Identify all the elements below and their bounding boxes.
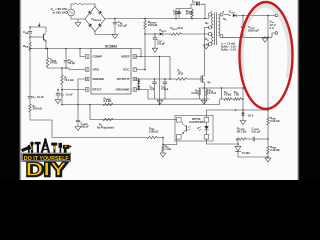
wire ISENSE down — [78, 79, 85, 105]
junction Rstart rail — [144, 18, 146, 20]
junction divider return — [267, 37, 269, 39]
wire bridge bottom — [95, 32, 115, 35]
junction VREF riser — [140, 56, 142, 58]
transformer pin boxes — [209, 13, 212, 16]
wire comp left — [236, 139, 238, 144]
resistor R11 bias — [162, 146, 165, 152]
svg-text:0.01 µF: 0.01 µF — [252, 129, 261, 133]
diode DOUT — [233, 14, 236, 17]
svg-text:VREF: VREF — [121, 54, 129, 58]
junction Cvcc — [154, 33, 156, 35]
wire secondary top — [224, 15, 231, 16]
junction bootstrap — [144, 33, 146, 35]
svg-text:100 kΩ: 100 kΩ — [148, 23, 158, 27]
svg-text:10 nF: 10 nF — [173, 13, 180, 16]
white schematic background — [0, 0, 320, 180]
svg-text:No Populated: No Populated — [97, 126, 114, 130]
junction ladder right top — [242, 87, 244, 89]
svg-text:120 µF: 120 µF — [157, 41, 166, 45]
capacitor C1 — [28, 31, 32, 33]
resistor — [103, 118, 113, 121]
wire VREF rail left — [30, 48, 91, 50]
wire opto anode riser — [206, 110, 208, 118]
ground Rbias — [160, 153, 166, 157]
wire RTCT column down — [61, 90, 63, 105]
wire AC bottom to bridge left — [71, 16, 85, 19]
wire Q2 collector — [45, 27, 47, 33]
op-amp U3 TL431 — [235, 146, 241, 151]
ground CT — [55, 100, 61, 104]
wire Cramp stub — [77, 105, 79, 120]
capacitor C6 — [152, 81, 156, 83]
phase dot primary — [211, 11, 212, 12]
resistor R12 LED feed 1 — [224, 98, 232, 101]
svg-text:100 pF: 100 pF — [81, 124, 90, 128]
ground aux — [203, 45, 209, 49]
wire Dz to ground — [242, 116, 244, 121]
svg-text:1 kΩ: 1 kΩ — [234, 93, 239, 96]
ground output — [262, 38, 268, 42]
wire C1 bottom — [29, 34, 31, 42]
wire Cout top leg — [242, 16, 244, 26]
junction right drop — [169, 78, 171, 80]
red circle annotation — [240, 2, 293, 109]
wire bottom return right — [157, 137, 163, 139]
junction clamp rail — [204, 18, 206, 20]
svg-text:COMP: COMP — [93, 54, 102, 58]
wire to minus terminal — [272, 33, 275, 37]
ground main — [201, 100, 207, 104]
resistor RFBU — [267, 117, 270, 125]
opto-coupler U2 box — [175, 116, 213, 142]
capacitor C2 — [64, 60, 68, 62]
wire left column — [29, 51, 31, 96]
wire to Dboot — [145, 33, 159, 35]
wire LED row — [207, 109, 269, 111]
wire clamp riser — [191, 4, 195, 8]
transformer T1 core — [214, 13, 216, 46]
svg-text:4.3 kΩ: 4.3 kΩ — [224, 93, 231, 96]
capacitor C3 CT — [56, 93, 60, 95]
wire ladder a — [220, 98, 225, 100]
resistor — [103, 103, 113, 106]
wire divider mid — [267, 125, 269, 146]
svg-text:1 µF: 1 µF — [150, 88, 155, 91]
junction C2 rail — [65, 48, 67, 50]
svg-text:10 Ω: 10 Ω — [178, 71, 184, 75]
junction line B — [89, 104, 91, 106]
ground zener — [240, 121, 246, 125]
DIY logo banner — [22, 153, 72, 162]
svg-text:56 pF: 56 pF — [68, 61, 75, 65]
wire Q2 emitter — [45, 41, 47, 49]
opto phototransistor — [186, 126, 188, 132]
wire Cin top — [114, 19, 116, 22]
wire CT stub — [57, 90, 59, 93]
resistor — [176, 78, 187, 81]
junction RTCT — [61, 89, 63, 91]
wire VREF row — [136, 56, 170, 58]
svg-text:TL431: TL431 — [242, 151, 250, 155]
svg-text:COUPLER: COUPLER — [189, 120, 205, 124]
junction FB mid — [267, 138, 269, 140]
wire drain riser — [203, 28, 205, 77]
node arrow — [38, 23, 40, 25]
wire GROUND row — [136, 90, 148, 100]
svg-text:RT/CT: RT/CT — [93, 87, 102, 91]
wire C2 bottom — [65, 63, 67, 68]
junction R3 — [61, 67, 63, 69]
junction COMP rail — [79, 48, 81, 50]
junction VREF drop — [159, 56, 161, 58]
wire TL431 anode — [238, 152, 268, 157]
pin 1 — [85, 55, 89, 59]
svg-text:10 kΩ: 10 kΩ — [191, 92, 198, 95]
capacitor CVCC — [153, 37, 157, 39]
wire Cramp bottom — [77, 122, 79, 126]
resistor RSNUB — [191, 10, 194, 18]
wire R2 top — [47, 49, 49, 58]
pin 2 — [85, 68, 89, 72]
wire LED anode — [206, 122, 208, 126]
DIY logo tools row — [21, 138, 72, 153]
junction bias top — [29, 26, 31, 28]
wire bottom return left — [52, 137, 147, 139]
wire ground stub — [77, 19, 79, 23]
capacitor COUT — [241, 25, 245, 27]
junction anode gnd — [267, 156, 269, 158]
pin 6 — [133, 77, 137, 81]
wire clamp to rail — [201, 4, 206, 18]
capacitor C7 — [163, 81, 167, 83]
junction LED row divider — [267, 109, 269, 111]
bridge rectifier DBRIDGE — [85, 7, 105, 32]
wire input DC rail — [105, 18, 209, 21]
svg-text:88.7 kΩ: 88.7 kΩ — [237, 129, 246, 133]
wire VREF riser — [140, 49, 142, 57]
wire Rboot to aux — [181, 33, 209, 35]
junction VCC — [144, 69, 146, 71]
capacitor C4 — [28, 96, 32, 98]
wire Rstart top — [144, 19, 146, 21]
wire Cd2 bottom — [164, 84, 166, 99]
diode DCLAMP — [196, 3, 199, 6]
wire ladder mid — [232, 98, 234, 100]
junction left column rail — [29, 48, 31, 50]
ground Cvcc — [152, 48, 158, 52]
junction CS — [204, 87, 206, 89]
wire VREF right drop — [169, 57, 171, 80]
junction R2 rail — [47, 48, 49, 50]
wire R9 top — [199, 88, 201, 90]
wire z1 top — [138, 79, 140, 80]
svg-text:1.0 nF: 1.0 nF — [65, 93, 73, 97]
LED arrows — [199, 127, 202, 131]
svg-text:60 kΩ: 60 kΩ — [186, 13, 193, 16]
resistor RCOMP zigzag — [236, 138, 246, 141]
svg-text:0.75 Ω: 0.75 Ω — [209, 92, 216, 95]
junction Cd1 — [154, 78, 156, 80]
svg-text:DIY: DIY — [26, 158, 68, 179]
resistor RFBB — [267, 146, 270, 154]
junction Rbias — [162, 144, 164, 146]
wire Cd1 top — [154, 79, 156, 82]
wire C2 top — [65, 49, 67, 60]
svg-text:GROUND: GROUND — [116, 87, 131, 91]
wire Dboot to Rboot — [164, 33, 171, 35]
wire ladder right column — [242, 88, 244, 112]
pin 5 — [133, 88, 137, 92]
zener D1 — [137, 80, 140, 83]
wire divider bottom — [267, 154, 269, 158]
svg-text:VCC: VCC — [123, 67, 130, 71]
junction snubber left — [175, 18, 177, 20]
wire gate — [187, 78, 201, 80]
capacitor CCOMP — [252, 137, 254, 141]
svg-text:10 kΩ: 10 kΩ — [50, 61, 57, 65]
wire CS drop to ramp — [203, 88, 205, 105]
resistor — [198, 90, 201, 96]
junction zener gnd — [138, 89, 140, 91]
wire R10 bottom — [206, 96, 208, 100]
wire C4 to R4 — [29, 99, 31, 104]
wire drain to primary pin — [204, 27, 208, 29]
junction Cd2 — [164, 78, 166, 80]
ground rail left — [157, 100, 163, 104]
svg-text:2.49 kΩ: 2.49 kΩ — [270, 148, 279, 152]
resistor R13 LED feed 2 — [234, 98, 242, 101]
wire Rstart bottom — [144, 29, 146, 34]
wire aux return stub — [206, 44, 209, 45]
ground divider — [265, 158, 271, 162]
svg-text:18 V: 18 V — [248, 114, 254, 118]
wire Rsnub top — [191, 9, 193, 10]
svg-text:34.8 kΩ: 34.8 kΩ — [33, 107, 42, 111]
junction snubber right — [191, 18, 193, 20]
junction LED row — [235, 109, 237, 111]
wire to fuse — [71, 3, 75, 5]
svg-text:OUTPUT: OUTPUT — [117, 77, 130, 81]
junction ladder right mid — [242, 98, 244, 100]
wire RT to pin4 — [62, 85, 85, 90]
transformer aux winding NA — [212, 34, 214, 44]
wire Cvcc top — [154, 34, 156, 37]
wire comp right — [255, 138, 268, 140]
right black bar — [300, 0, 320, 180]
svg-text:VFB: VFB — [93, 67, 100, 71]
junction ramp A — [77, 104, 79, 106]
svg-text:10 nF: 10 nF — [37, 95, 44, 99]
wire Csnub bottom — [178, 14, 180, 19]
opto pin boxes — [177, 118, 182, 123]
svg-text:0.1 µF: 0.1 µF — [162, 88, 169, 91]
junction TL431 cathode — [237, 143, 239, 145]
wire fuse to bridge top — [83, 4, 95, 7]
wire z join — [138, 84, 140, 86]
wire Rbias bottom — [162, 152, 164, 154]
junction zener top — [138, 78, 140, 80]
wire Cout bottom leg — [242, 28, 244, 37]
resistor R2 — [46, 58, 49, 68]
svg-text:9.53 kΩ: 9.53 kΩ — [270, 119, 279, 123]
wire output return rail — [222, 36, 273, 38]
svg-text:to 265 VAC: to 265 VAC — [53, 10, 68, 14]
junction comp — [65, 67, 67, 69]
junction ramp left — [61, 104, 63, 106]
wire OUTPUT row — [136, 78, 176, 80]
diode DBOOT — [160, 32, 163, 35]
wire opto cathode to TL431 — [207, 139, 239, 144]
resistor RBOOT — [171, 33, 181, 36]
capacitor C5 ramp — [76, 119, 80, 121]
junction base — [29, 36, 31, 38]
wire left corner down — [30, 112, 52, 138]
wire Cin bottom — [114, 25, 116, 35]
op-amp U1 UC3842 body — [91, 49, 131, 95]
wire VREF drop to ramp line — [159, 57, 161, 105]
opto LED D3 — [204, 126, 208, 130]
svg-text:100 µF: 100 µF — [118, 23, 128, 27]
ground input — [75, 23, 81, 27]
wire VCC feed — [136, 34, 145, 70]
wire Cd1 bottom — [154, 84, 156, 99]
fuse F1 — [75, 3, 83, 5]
transistor Q1 MOSFET — [200, 76, 202, 82]
wire comp join — [48, 67, 70, 68]
svg-text:UC3842: UC3842 — [105, 44, 118, 48]
junction ladder bottom — [242, 109, 244, 111]
transformer secondary winding NS — [218, 15, 220, 36]
wire snubber top left — [176, 9, 191, 19]
wire ground rail — [148, 98, 210, 100]
resistor R3 RT — [61, 75, 64, 85]
wire C1 top — [29, 27, 31, 31]
DIY logo yellow accents — [31, 146, 32, 150]
zener D2 — [137, 86, 140, 89]
phase dot secondary — [223, 11, 224, 12]
terminal output plus — [275, 14, 278, 17]
pin 7 — [133, 68, 137, 72]
wire CS row — [199, 87, 244, 89]
junction divider top — [267, 15, 269, 17]
wire opto emitter loop — [163, 138, 177, 145]
junction VREF ramp — [159, 104, 161, 106]
wire Cvcc bottom — [154, 40, 156, 48]
junction emitter rail — [45, 48, 47, 50]
transformer primary winding NP — [212, 15, 214, 28]
wire LED cathode — [206, 130, 208, 135]
resistor RSTART — [144, 21, 147, 30]
svg-text:2200 µF: 2200 µF — [248, 28, 259, 32]
wire R3 top — [61, 68, 63, 75]
zener D4 18V — [241, 113, 244, 116]
pin 8 — [133, 55, 137, 59]
junction CT — [57, 89, 59, 91]
wire ladder b — [241, 98, 243, 100]
wire source down — [203, 82, 205, 88]
wire z2 bottom — [138, 88, 140, 91]
wire Rsnub bottom — [191, 18, 193, 19]
wire Cd2 top — [164, 79, 166, 82]
wire comp mid — [246, 138, 252, 140]
wire bias loop top — [30, 26, 46, 28]
wire to VFB pin — [69, 68, 85, 70]
wire R10 top — [206, 88, 208, 90]
wire output rail — [237, 15, 275, 17]
resistor R1 — [29, 42, 32, 51]
junction output ground — [264, 37, 266, 39]
junction bottom return — [162, 137, 164, 139]
svg-text:1 kΩ: 1 kΩ — [165, 147, 171, 151]
svg-text:73.4 kΩ: 73.4 kΩ — [64, 78, 73, 82]
svg-text:20 Ω: 20 Ω — [178, 27, 183, 30]
junction Cout top — [242, 15, 244, 17]
resistor — [206, 90, 209, 96]
wire ladder left leg — [221, 88, 223, 99]
wire rail to primary pin — [208, 16, 210, 19]
wire TL431 top stub — [237, 144, 239, 146]
resistor R4 — [29, 104, 32, 112]
wire CT bottom — [57, 96, 59, 100]
capacitor CIN — [113, 22, 117, 24]
terminal output minus — [275, 32, 278, 35]
ground Cin — [112, 35, 118, 39]
svg-text:NP/NA = 1:10: NP/NA = 1:10 — [221, 48, 236, 53]
junction ladder left — [221, 87, 223, 89]
svg-text:ISENSE: ISENSE — [93, 77, 104, 81]
wire VREF rail right — [131, 48, 141, 50]
wire AC top — [70, 4, 72, 9]
ground Cramp — [75, 127, 81, 131]
wire ramp line B — [90, 105, 177, 120]
wire Q2 base — [30, 36, 44, 38]
junction Cout bottom — [242, 35, 244, 37]
capacitor CSNUB — [177, 11, 181, 13]
pin 3 — [85, 77, 89, 81]
svg-text:6.2 kΩ: 6.2 kΩ — [104, 99, 112, 103]
wire R9 bottom — [199, 96, 201, 100]
wire Csnub top — [178, 9, 180, 13]
wire rail to COMP pin — [80, 49, 85, 57]
resistor R5 — [147, 136, 157, 139]
svg-text:6.98 kΩ: 6.98 kΩ — [149, 130, 158, 133]
wire divider column — [267, 16, 269, 118]
wire ramp line A — [62, 100, 220, 105]
AC source V1 — [68, 9, 75, 16]
junction Cin rail — [114, 18, 116, 20]
pin 4 — [85, 88, 89, 92]
